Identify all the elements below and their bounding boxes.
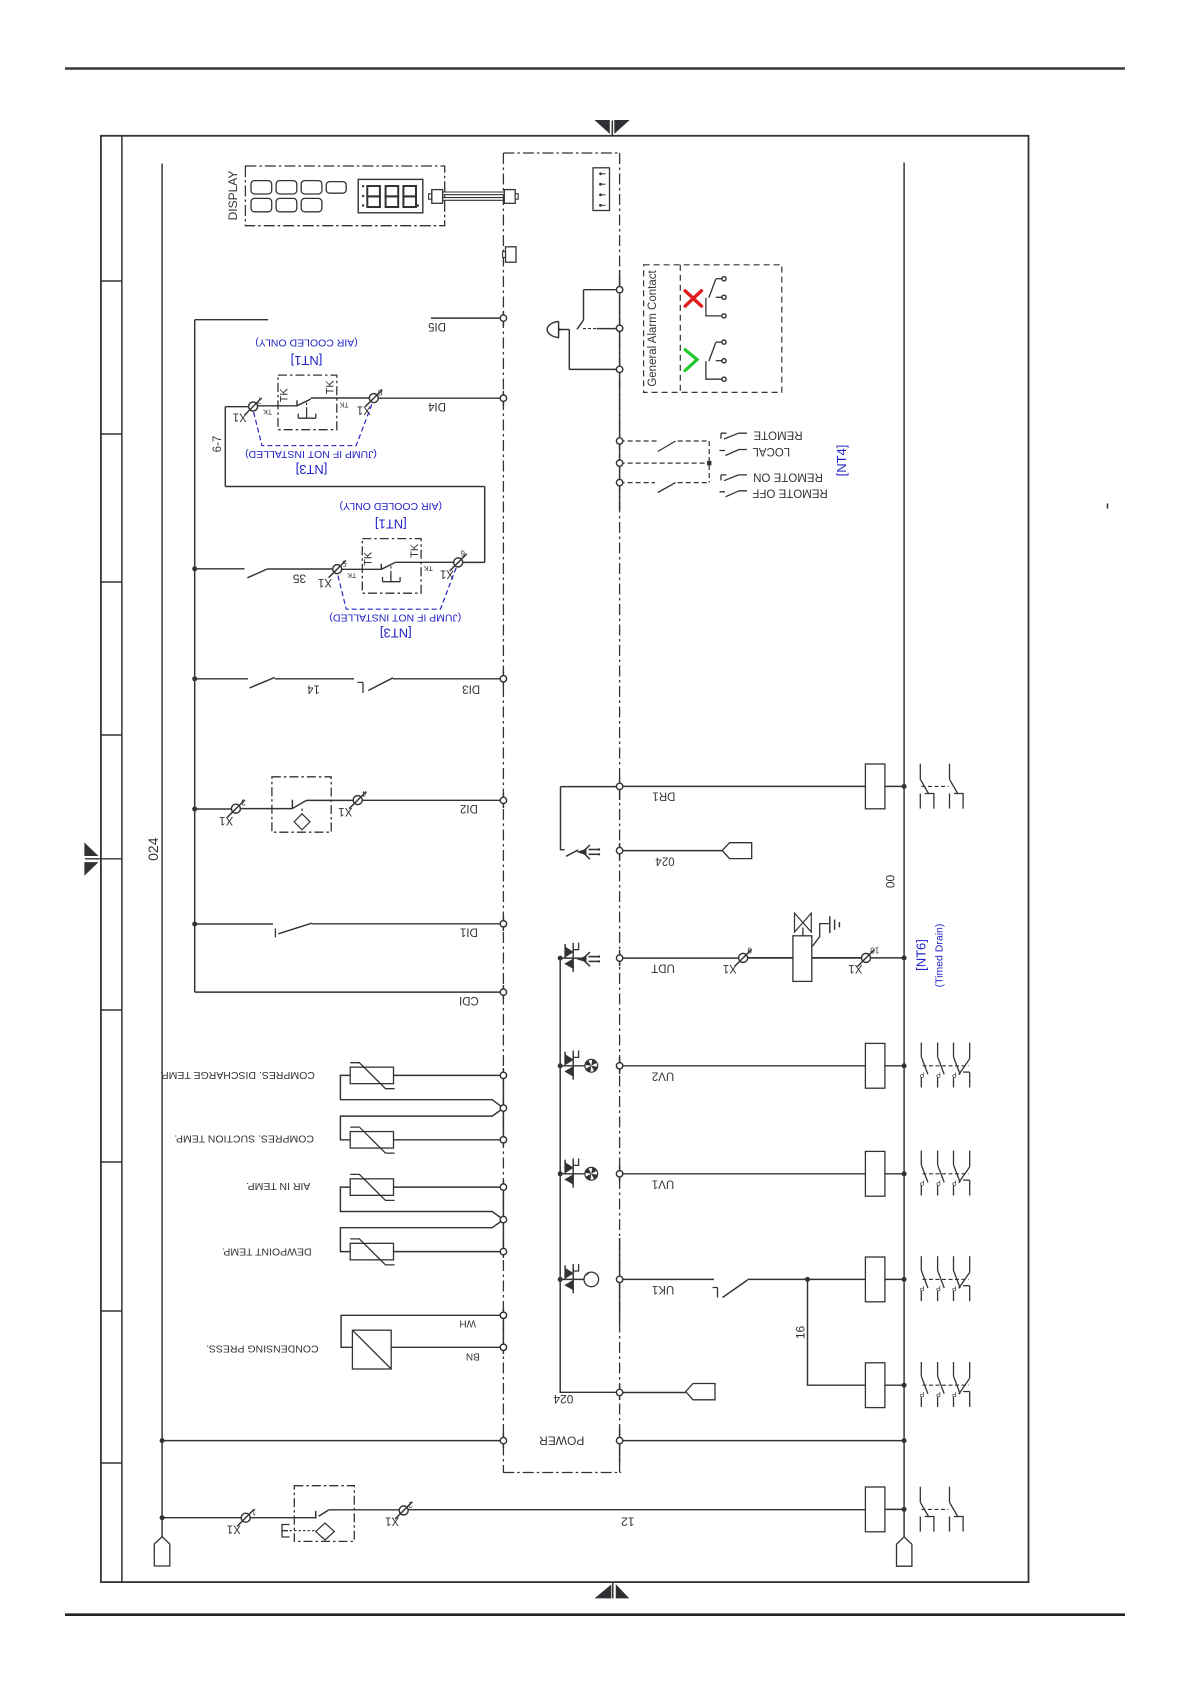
wire X1-9 to valve [748,957,793,959]
wire branch 16 [808,1279,866,1385]
junction spine/35 [192,566,197,571]
fold mark triangle bottom-right [617,1586,628,1598]
bus 024 vertical [161,164,163,1537]
svg-text:4: 4 [362,789,367,798]
svg-text:BN: BN [466,1351,480,1362]
thermal contact TK1 [NT1] box [278,375,337,430]
svg-text:P: P [952,1390,957,1397]
terminal X1 pin 7 [233,395,262,422]
terminal X1 pin 6 [440,549,467,580]
bus 00 vertical [903,163,905,1537]
controller left boundary solid segments [502,311,504,1448]
alarm symbol X (fault) [685,291,701,306]
TK2 actuator bar [383,573,401,582]
drain arrows DR row [578,845,600,859]
terminal X1 pin 1 [227,1508,256,1535]
display button S4 [326,182,346,194]
wire X1-2 to coil K12 [408,1509,865,1511]
compressor symbol UK1 [584,1272,599,1287]
node left boundary 9 [500,1137,506,1143]
svg-text:5: 5 [342,558,347,567]
svg-text:(JUMP IF NOT INSTALLED): (JUMP IF NOT INSTALLED) [245,448,377,460]
remote glyph REMOTE [721,433,747,439]
svg-text:X1: X1 [227,1523,241,1535]
TK2 actuator link [390,566,392,572]
margin strip divider 7 [101,1310,122,1312]
svg-text:REMOTE OFF: REMOTE OFF [752,487,827,499]
page bottom rule [65,1613,1125,1616]
relay coil DR1 [865,764,885,809]
connector arrow bottom-left [154,1537,170,1566]
junction spine/DI1 [192,922,197,927]
svg-text:UV2: UV2 [652,1069,674,1081]
wire UDT internal [559,957,580,959]
svg-text:P: P [919,1390,924,1397]
wire X1-3 to pressure switch [240,808,292,810]
svg-text:(JUMP IF NOT INSTALLED): (JUMP IF NOT INSTALLED) [329,612,461,624]
remote row1 switch arm [658,441,676,452]
wire coil K12 to bus [885,1508,904,1510]
node left boundary 14 [500,1344,506,1350]
wire TK1 to X1-7 [258,405,297,407]
fold mark tick top [611,121,613,136]
wire remote row3 dashed [620,482,655,484]
svg-text:CDI: CDI [459,994,479,1006]
display ribbon connector J1 [432,190,443,204]
remote glyph REMOTE ON [721,475,747,481]
wire DR1 node to rail [561,786,620,788]
junction bus/UDT [902,955,907,960]
margin strip divider 8 [101,1462,122,1464]
relay coil UK1 [865,1257,885,1302]
jumper NT3 hint (lower) [338,567,457,609]
margin strip divider 6 [101,1161,122,1163]
display dot b [362,195,364,197]
junction 024/X1-1 row [160,1515,165,1520]
connector arrow bottom-right [897,1537,912,1566]
TK1 fixed contact tick [296,400,298,406]
svg-text:REMOTE ON: REMOTE ON [753,471,823,483]
node right boundary 8 [616,847,622,853]
relay coil K12 (bottom) [865,1487,885,1532]
wire pressure switch to X1-4 [307,799,354,801]
wire X1-4 to DI2 node [362,799,503,801]
remote row3 switch arm [658,483,676,493]
display button S6 [276,198,297,211]
svg-text:X1: X1 [848,962,862,974]
svg-text:P: P [936,1071,941,1078]
node left boundary 3 [500,676,506,682]
wire coil UV2 to bus [885,1065,904,1067]
switch 35 arm [247,569,267,578]
wire remote row3 dashed b [678,482,710,484]
node left boundary 6 [500,989,506,995]
svg-text:024: 024 [655,855,675,867]
7-segment digit 1 [367,186,380,207]
wire X1-8 to TK box [311,397,370,399]
margin strip divider 3 [101,581,122,583]
triac UV1 [565,1158,579,1187]
svg-text:REMOTE: REMOTE [753,429,803,441]
svg-text:DI2: DI2 [460,802,478,814]
controller box left boundary [502,153,504,1473]
7-segment digit 3 [403,186,416,207]
svg-text:P: P [936,1179,941,1186]
display dot a [362,185,364,187]
contact group K2 [919,1362,969,1407]
wire UDT node to X1-9 [623,957,739,959]
page top rule [65,67,1125,70]
junction UK1/branch16 [805,1277,810,1282]
wire DR1 to coil [623,785,866,787]
wire DI5 to node [431,317,503,319]
valve exhaust line [812,924,828,947]
display button S3 [301,181,322,194]
node left boundary 13 [500,1312,506,1318]
svg-text:TK: TK [263,407,272,414]
margin strip divider 5 [101,1009,122,1011]
junction bus/K2 [902,1383,907,1388]
svg-text:CONDENSING PRESS.: CONDENSING PRESS. [206,1343,319,1355]
wire alarm switch vertical [583,290,585,320]
thermal contact TK2 [NT1] box [362,539,421,594]
svg-text:COMPRES. DISCHARGE TEMP.: COMPRES. DISCHARGE TEMP. [160,1069,315,1081]
terminal X1 pin 2 [385,1500,413,1527]
junction remote [707,461,711,465]
svg-text:[NT3]: [NT3] [380,625,412,640]
wire UK1 internal [559,1278,584,1280]
svg-text:COMPRES. SUCTION TEMP.: COMPRES. SUCTION TEMP. [174,1133,314,1145]
svg-text:X1: X1 [723,962,737,974]
UK1 aux contact tick [713,1288,718,1298]
alarm symbol OK (chevron) [685,350,697,371]
svg-text:P: P [936,1284,941,1291]
svg-text:TK: TK [363,551,375,566]
display button S5 [251,198,272,211]
wire DI5 stub left [195,319,268,321]
TK1 actuator link [306,403,308,409]
node left boundary 2 [500,395,506,401]
contact group K12 [920,1487,963,1532]
wire remote row1 dashed [620,440,657,442]
pressure switch fixed tick [291,800,293,809]
contact group UK1 [919,1256,969,1301]
wire UV2 internal [559,1065,585,1067]
pressure switch arm [292,800,306,808]
wire loop horizontal [225,486,484,488]
svg-text:(AIR COOLED ONLY): (AIR COOLED ONLY) [340,500,443,512]
fold mark triangle left-lower [85,863,97,874]
flow switch box [294,1486,354,1542]
junction rail/UK1 [558,1277,563,1282]
wire spine to switch 14 [195,678,248,680]
svg-text:UDT: UDT [651,962,675,974]
svg-text:P: P [919,1071,924,1078]
svg-text:(AIR COOLED ONLY): (AIR COOLED ONLY) [255,337,358,349]
contact group UV2 [919,1043,969,1088]
7-segment display window [358,179,423,212]
wire TK2 to X1-5 [342,568,382,570]
remote glyph LOCAL [720,450,748,456]
jumper NT3 hint (upper) [254,404,373,446]
alarm switch link dashed [583,328,597,330]
node left boundary 15 [500,1437,506,1443]
svg-text:[NT3]: [NT3] [296,462,328,477]
wire switch 35 to spine [195,568,245,570]
junction bus/00 [902,1438,907,1443]
ribbon cable [443,192,505,200]
wire transducer WH [341,1315,503,1347]
DI3 contact2 tick [358,682,364,693]
junction bus/UV1 [902,1171,907,1176]
node left boundary 12 [500,1248,506,1254]
TK1 actuator bar [298,409,316,418]
node left boundary 7 [500,1072,506,1078]
flow switch fixed tick [315,1511,317,1519]
svg-text:00: 00 [884,875,898,889]
relay coil UV1 [865,1151,885,1196]
svg-text:3: 3 [241,797,246,806]
wire coil K2 to bus [885,1384,904,1386]
wire loop to X1-6 [463,561,485,563]
triac UK1 [565,1264,579,1293]
4-pin connector J3 [593,168,610,211]
wire valve to X1-10 [812,957,862,959]
RT3 air in temp sensor [340,1174,503,1219]
junction bus/UV2 [902,1063,907,1068]
svg-text:POWER: POWER [539,1434,585,1448]
svg-text:6: 6 [460,549,465,558]
wire UV2 to coil [623,1065,866,1067]
junction rail/UDT [558,956,563,961]
net flag 024 b [686,1384,715,1400]
fold mark tick left [85,858,122,860]
svg-text:TK: TK [278,388,290,403]
display button S7 [301,198,322,211]
wire UK1 node to contact [623,1278,714,1280]
node right boundary 13 [616,1389,622,1395]
svg-text:10: 10 [870,946,879,955]
svg-text:X1: X1 [233,410,247,422]
drawing frame border [101,136,1029,1582]
pressure switch B2 box [272,777,331,832]
wire POWER [162,1440,503,1442]
node left boundary 10 [500,1184,506,1190]
svg-text:X1: X1 [318,576,332,588]
svg-text:DI5: DI5 [428,320,446,332]
controller box right boundary [619,153,621,1473]
alarm changeover contact (ok) [706,340,726,381]
fold mark triangle bottom-left [597,1586,611,1598]
relay coil K2 [865,1363,885,1408]
wire remote row1 dashed b [678,440,710,442]
svg-text:TK: TK [325,380,337,395]
drain solenoid valve Y1 body [793,936,812,982]
svg-text:DI4: DI4 [427,400,446,412]
svg-text:UK1: UK1 [652,1283,674,1295]
wire transducer BN [391,1346,503,1348]
controller ribbon connector J2 [504,190,515,204]
valve stem [802,928,804,936]
display dot c [362,204,364,206]
triac UDT [565,943,579,972]
svg-text:P: P [919,1284,924,1291]
svg-text:024: 024 [145,837,161,861]
svg-text:P: P [936,1390,941,1397]
svg-text:X1: X1 [338,805,352,817]
internal switch DR arm [566,850,578,856]
junction spine/DI3 [192,676,197,681]
node right boundary 1 [616,287,622,293]
condensing pressure transducer B1 [352,1330,391,1369]
svg-text:X1: X1 [385,1515,399,1527]
svg-text:[NT6]: [NT6] [914,939,929,971]
switch 14 arm [249,677,274,688]
input common spine wire [194,320,196,992]
wire 00 return [623,1440,904,1442]
wire loop right vertical [484,487,486,563]
node right boundary 10 [616,1063,622,1069]
aux connector J4 [506,247,517,262]
svg-text:LOCAL: LOCAL [752,445,790,457]
flow switch arm [319,1510,329,1516]
svg-text:TK: TK [339,401,348,408]
wire coil DR1 to bus [885,785,904,787]
general alarm contact box [644,265,782,393]
flow switch diamond [316,1523,335,1540]
svg-text:X1: X1 [219,814,233,826]
wire X1-5 to switch 35 [267,568,332,570]
svg-text:DI1: DI1 [460,926,478,938]
wire loop left vertical [224,407,226,487]
drain arrows UDT row [578,952,600,966]
node right boundary 11 [616,1171,622,1177]
node right boundary 9 [616,955,622,961]
wire X1-10 to bus [871,957,905,959]
wire DI4 node to X1-8 [378,397,503,399]
wire CDI [195,991,504,993]
internal rail lower [560,958,619,1392]
net flag 024 a [722,843,752,859]
svg-text:2: 2 [408,1500,413,1509]
svg-text:DR1: DR1 [652,790,675,802]
junction 024/POWER [160,1438,165,1443]
contact group UV1 [919,1151,969,1196]
internal rail upper [561,787,565,850]
svg-text:7: 7 [257,395,262,404]
svg-text:DEWPOINT TEMP.: DEWPOINT TEMP. [222,1245,312,1257]
frame left margin strip line [121,136,123,1582]
wire switch to DI1 node [312,923,504,925]
7-segment digit 2 [386,186,399,207]
buzzer H1 [547,321,558,337]
flow switch actuator link [290,1530,316,1532]
svg-text:P: P [952,1284,957,1291]
terminal X1 pin 9 [723,946,752,975]
wire X1-1 to flow switch [250,1517,316,1519]
svg-text:(Timed Drain): (Timed Drain) [934,924,946,988]
wire 024b to flag [623,1392,686,1394]
wire 024a to flag [623,850,722,852]
fold mark triangle left-upper [85,844,97,855]
node right boundary 7 [616,783,622,789]
display button S1 [251,181,272,194]
remote glyph REMOTE OFF [720,491,748,497]
TK2 contact arm [381,563,395,570]
display dot d [417,204,419,206]
controller box top edge [503,152,619,154]
stray mark right margin [1107,504,1109,509]
node right boundary 2 [616,325,622,331]
svg-text:P: P [919,1179,924,1186]
flow switch E symbol [282,1525,290,1538]
wire UV1 to coil [623,1173,866,1175]
svg-text:6-7: 6-7 [212,436,224,453]
junction bus/K12 [902,1507,907,1512]
valve bowtie symbol [795,913,803,932]
junction bus/UK1 [902,1277,907,1282]
junction spine/DI2 [192,807,197,812]
svg-text:WH: WH [459,1318,476,1329]
DI3 contact2 arm [368,678,393,691]
wire X1-7 left [225,406,248,408]
wire coil UV1 to bus [885,1173,904,1175]
junction rail/UV1 [558,1171,563,1176]
RT1 compressor discharge temp sensor [340,1063,503,1108]
RT4 dewpoint temp sensor [340,1220,503,1265]
svg-text:TK: TK [409,543,421,558]
wire alarm node1 [584,289,620,291]
node left boundary 5 [500,921,506,927]
svg-text:TK: TK [347,571,356,578]
svg-text:1: 1 [251,1508,256,1517]
contact group DR1 [920,764,963,809]
node right boundary 3 [616,366,622,372]
triac UV2 [565,1050,579,1079]
fold mark triangle top-left [596,121,609,133]
margin strip divider 1 [101,280,122,282]
svg-text:16: 16 [793,1326,807,1340]
wire 024 to X1-1 [162,1517,241,1519]
fold mark tick bottom [612,1582,614,1598]
display button S2 [276,181,297,194]
wire contact2 to DI3 node [393,678,503,680]
junction bus/DR1 [902,784,907,789]
node left boundary 11 [500,1216,506,1222]
svg-text:8: 8 [378,388,383,397]
UK1 aux contact arm [723,1280,748,1298]
fan symbol UV1 [585,1167,598,1180]
svg-text:DISPLAY: DISPLAY [226,171,240,221]
node left boundary 8 [500,1105,506,1111]
fan symbol UV2 [585,1059,598,1072]
general alarm contact divider [679,265,681,393]
node left boundary 4 [500,797,506,803]
junction rail/UV2 [558,1063,563,1068]
controller right boundary solid segments [619,270,621,1465]
svg-text:024: 024 [553,1392,573,1406]
svg-text:35: 35 [293,572,307,586]
RT2 compressor suction temp sensor [340,1108,503,1153]
node right boundary 12 [616,1276,622,1282]
pressure switch actuator link [301,809,303,814]
DI1 contact arm [278,923,312,934]
controller box bottom edge [503,1472,621,1474]
margin strip divider 2 [101,433,122,435]
TK1 contact arm [297,399,311,406]
svg-text:[NT4]: [NT4] [834,445,849,477]
terminal X1 pin 8 [357,388,383,416]
